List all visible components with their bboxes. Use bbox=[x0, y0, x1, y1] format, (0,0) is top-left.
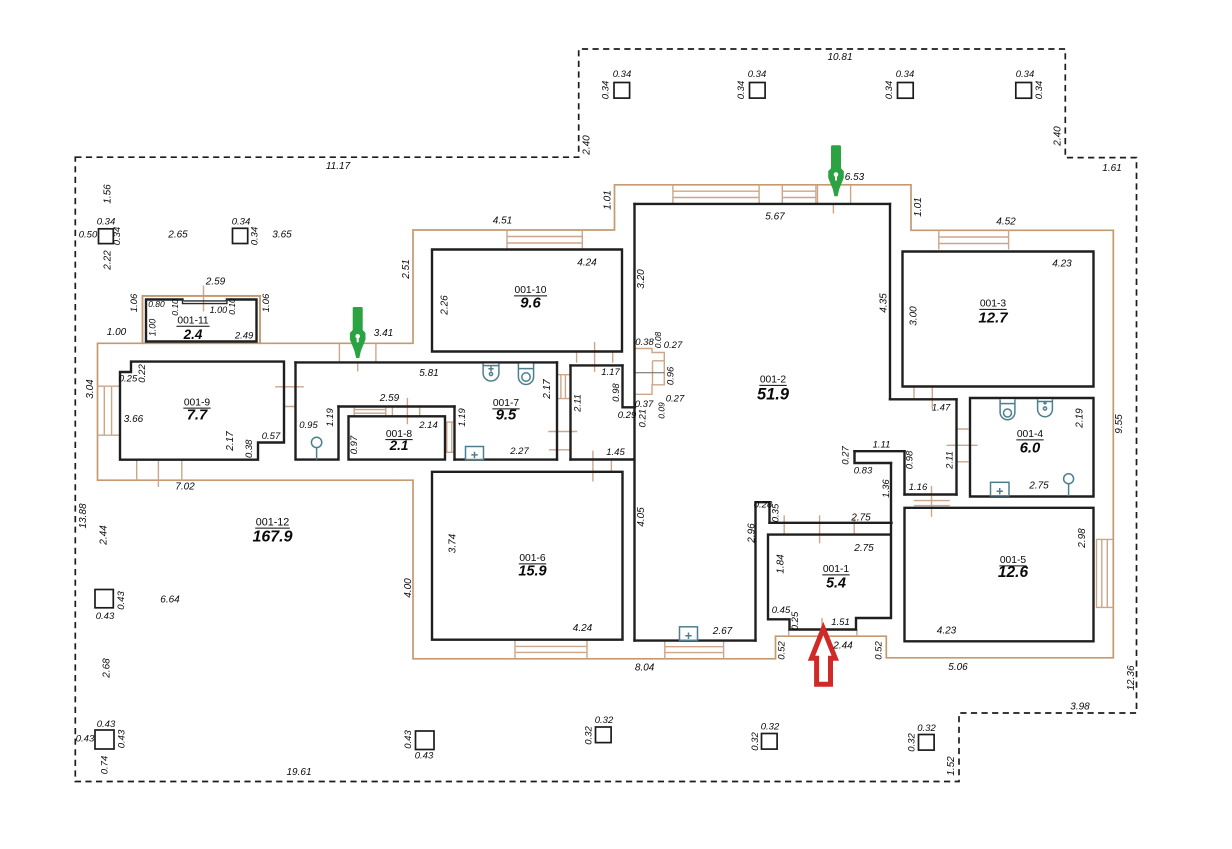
svg-text:15.9: 15.9 bbox=[518, 564, 546, 580]
svg-text:4.23: 4.23 bbox=[1052, 259, 1072, 270]
svg-text:0.29: 0.29 bbox=[618, 410, 637, 421]
svg-text:9.5: 9.5 bbox=[496, 408, 517, 424]
room 001-2 left wall bbox=[633, 204, 635, 641]
room 001-7 bottom wall bbox=[455, 458, 558, 460]
svg-text:5.06: 5.06 bbox=[948, 662, 968, 673]
svg-text:0.57: 0.57 bbox=[262, 431, 281, 442]
svg-text:4.24: 4.24 bbox=[573, 623, 593, 634]
svg-text:2.19: 2.19 bbox=[1075, 408, 1086, 429]
svg-text:1.84: 1.84 bbox=[776, 554, 787, 574]
lobby top wall bbox=[571, 364, 623, 366]
svg-text:19.61: 19.61 bbox=[286, 767, 311, 778]
svg-text:2.49: 2.49 bbox=[234, 331, 254, 342]
marker square sq-l1 bbox=[99, 229, 114, 244]
svg-text:12.36: 12.36 bbox=[1126, 665, 1137, 690]
svg-text:001-1: 001-1 bbox=[823, 564, 850, 575]
svg-text:0.34: 0.34 bbox=[1016, 69, 1035, 80]
svg-text:3.65: 3.65 bbox=[272, 230, 292, 241]
tick dim 1.17 lobby door bbox=[594, 342, 596, 372]
room 001-6 walls bbox=[432, 472, 623, 640]
tick dim 2.59 room 001-11 bbox=[203, 286, 205, 312]
svg-text:0.38: 0.38 bbox=[244, 439, 255, 458]
svg-text:0.45: 0.45 bbox=[772, 605, 791, 616]
svg-text:4.23: 4.23 bbox=[937, 626, 957, 637]
room 001-8 walls bbox=[349, 416, 446, 459]
marker square sq-b1 bbox=[95, 730, 114, 749]
svg-text:0.34: 0.34 bbox=[232, 217, 251, 228]
svg-text:2.44: 2.44 bbox=[99, 525, 110, 546]
svg-text:1.19: 1.19 bbox=[457, 408, 468, 427]
room 001-4 walls bbox=[970, 398, 1094, 497]
svg-text:4.05: 4.05 bbox=[636, 507, 647, 527]
door between rooms 001-9 and boiler room bbox=[275, 387, 304, 407]
room 001-3 walls bbox=[903, 252, 1094, 387]
window W1 left wall of room 001-9 bbox=[98, 386, 120, 435]
svg-text:0.32: 0.32 bbox=[750, 732, 761, 751]
svg-text:2.75: 2.75 bbox=[1028, 481, 1049, 492]
tick dim 2.59 wall bbox=[406, 398, 408, 425]
window W7 below room 001-2 bbox=[665, 641, 724, 659]
marker square sq-b4 bbox=[762, 734, 778, 750]
svg-text:1.00: 1.00 bbox=[148, 319, 158, 337]
svg-text:3.74: 3.74 bbox=[448, 533, 459, 553]
marker square sq-b5 bbox=[919, 735, 935, 751]
svg-text:0.95: 0.95 bbox=[299, 420, 318, 431]
svg-text:6.0: 6.0 bbox=[1020, 441, 1041, 457]
svg-text:7.7: 7.7 bbox=[187, 408, 208, 424]
svg-text:2.1: 2.1 bbox=[389, 438, 409, 453]
svg-text:2.14: 2.14 bbox=[418, 420, 438, 431]
wall 1.36 bbox=[890, 463, 892, 523]
svg-text:12.7: 12.7 bbox=[978, 310, 1008, 327]
svg-text:2.26: 2.26 bbox=[440, 295, 451, 316]
room 001-2 bottom wall bbox=[635, 639, 756, 641]
room 001-11 orange outer box bbox=[143, 296, 261, 344]
marker square sq-t4 bbox=[1016, 83, 1032, 99]
svg-text:0.83: 0.83 bbox=[854, 466, 873, 477]
svg-text:1.06: 1.06 bbox=[129, 293, 140, 312]
svg-text:0.52: 0.52 bbox=[777, 641, 788, 660]
svg-text:1.00: 1.00 bbox=[210, 305, 228, 315]
sink in room 001-2 bottom wall bbox=[680, 627, 698, 641]
svg-text:11.17: 11.17 bbox=[326, 161, 351, 172]
svg-text:2.67: 2.67 bbox=[712, 626, 733, 637]
svg-text:2.11: 2.11 bbox=[945, 451, 956, 470]
svg-text:3.66: 3.66 bbox=[124, 414, 144, 425]
svg-text:0.34: 0.34 bbox=[736, 81, 747, 100]
svg-text:0.34: 0.34 bbox=[1034, 81, 1045, 100]
tick door 1.45 wall bbox=[610, 460, 612, 472]
svg-text:001-10: 001-10 bbox=[514, 285, 546, 296]
svg-text:001-2: 001-2 bbox=[760, 375, 787, 386]
wall 2.59 above room 001-8 bbox=[339, 405, 455, 407]
svg-text:9.55: 9.55 bbox=[1114, 414, 1125, 434]
svg-text:0.34: 0.34 bbox=[250, 227, 261, 246]
svg-text:3.04: 3.04 bbox=[85, 379, 96, 399]
door hatch between rooms 001-8 and 001-7 bbox=[445, 422, 455, 452]
chimney niche outline on left wall of room 001-2 bbox=[635, 349, 664, 395]
corridor left wall bbox=[569, 365, 571, 459]
room 001-9 walls bbox=[120, 362, 284, 460]
marker square sq-l2 bbox=[233, 228, 248, 243]
svg-text:3.20: 3.20 bbox=[636, 269, 647, 289]
wall 0.27-0.83 bbox=[855, 451, 892, 463]
svg-text:0.27: 0.27 bbox=[666, 393, 685, 404]
svg-text:1.01: 1.01 bbox=[913, 197, 924, 216]
svg-text:0.22: 0.22 bbox=[137, 364, 148, 383]
entrance jamb right of green arrow 2 bbox=[850, 185, 852, 203]
room 001-7 right wall bbox=[556, 362, 558, 459]
svg-text:4.52: 4.52 bbox=[996, 217, 1016, 228]
svg-text:8.04: 8.04 bbox=[635, 663, 655, 674]
tick between rooms 001-3 and 001-4 a bbox=[913, 387, 915, 400]
svg-text:0.34: 0.34 bbox=[896, 69, 915, 80]
door into room 001-4 bbox=[947, 429, 978, 462]
svg-text:51.9: 51.9 bbox=[757, 386, 790, 404]
marker square sq-t2 bbox=[750, 83, 766, 99]
svg-text:001-4: 001-4 bbox=[1017, 429, 1044, 440]
porch jamb left bbox=[788, 630, 790, 637]
svg-text:0.32: 0.32 bbox=[761, 722, 780, 733]
svg-text:4.51: 4.51 bbox=[493, 216, 512, 227]
svg-text:10.81: 10.81 bbox=[827, 52, 852, 63]
bidet in room 001-7 bbox=[483, 364, 499, 381]
svg-text:1.56: 1.56 bbox=[103, 184, 114, 204]
svg-text:0.08: 0.08 bbox=[653, 331, 663, 348]
svg-text:0.35: 0.35 bbox=[771, 503, 782, 522]
svg-text:2.59: 2.59 bbox=[379, 393, 400, 404]
svg-text:001-11: 001-11 bbox=[177, 315, 209, 326]
svg-text:0.43: 0.43 bbox=[117, 729, 128, 748]
svg-text:0.32: 0.32 bbox=[584, 726, 595, 745]
svg-text:2.17: 2.17 bbox=[225, 431, 236, 452]
wall 5.81 top of rooms 001-7/001-8 bbox=[296, 361, 558, 363]
window W3a top wall room 001-2 left bbox=[673, 185, 759, 204]
wall 1.45 bbox=[571, 458, 635, 460]
svg-text:1.01: 1.01 bbox=[603, 190, 614, 209]
svg-text:2.27: 2.27 bbox=[509, 446, 529, 457]
marker square sq-t3 bbox=[898, 83, 914, 99]
green entrance arrow 2 (top wall) bbox=[828, 145, 844, 196]
svg-text:2.59: 2.59 bbox=[205, 277, 226, 288]
svg-text:0.43: 0.43 bbox=[403, 730, 414, 749]
svg-text:0.38: 0.38 bbox=[635, 337, 654, 348]
tick below green arrow 2 bbox=[832, 203, 834, 214]
svg-text:2.44: 2.44 bbox=[832, 640, 853, 651]
svg-text:4.24: 4.24 bbox=[577, 258, 597, 269]
svg-text:6.53: 6.53 bbox=[845, 172, 865, 183]
svg-text:0.43: 0.43 bbox=[97, 719, 116, 730]
room 001-2 top wall bbox=[635, 203, 891, 205]
svg-text:5.67: 5.67 bbox=[765, 212, 785, 223]
door in right wall of room 001-7 bbox=[557, 375, 571, 399]
svg-text:1.17: 1.17 bbox=[601, 367, 620, 378]
svg-text:0.74: 0.74 bbox=[100, 756, 111, 775]
svg-text:0.32: 0.32 bbox=[917, 723, 936, 734]
window W4 "4.52" above room 001-3 bbox=[939, 230, 1009, 249]
water heater circle in boiler room bbox=[311, 437, 321, 447]
svg-text:0.96: 0.96 bbox=[666, 366, 677, 385]
room 001-5 walls bbox=[905, 508, 1094, 642]
svg-text:4.00: 4.00 bbox=[403, 578, 414, 598]
room 001-11 top wall niche bbox=[184, 300, 227, 302]
building exterior wall outline bbox=[98, 185, 1114, 659]
chimney niche divider line bbox=[635, 372, 664, 374]
entrance jamb left of green arrow 2 bbox=[817, 185, 819, 203]
window W2 "4.51" top-left wing bbox=[507, 230, 582, 249]
ticks wall 2.75 room 001-1 b bbox=[853, 518, 855, 535]
svg-text:1.19: 1.19 bbox=[325, 408, 336, 427]
svg-text:0.32: 0.32 bbox=[595, 715, 614, 726]
svg-text:0.34: 0.34 bbox=[97, 217, 116, 228]
red main entrance arrow bbox=[812, 629, 836, 685]
svg-text:0.34: 0.34 bbox=[112, 227, 123, 246]
wall 1.16 bbox=[905, 493, 957, 495]
marker square sq-b3 bbox=[596, 727, 612, 743]
tick below green arrow 1 bbox=[357, 362, 359, 371]
svg-text:2.75: 2.75 bbox=[850, 513, 871, 524]
tick dim 1.47 bbox=[931, 387, 933, 410]
ticks wall 2.75 room 001-1 a bbox=[783, 515, 785, 535]
tick wall 2.59 a bbox=[391, 407, 393, 416]
svg-text:5.81: 5.81 bbox=[419, 368, 438, 379]
tick wall 2.59 b bbox=[419, 407, 421, 416]
window W5 right wall of room 001-5 bbox=[1096, 539, 1113, 607]
entrance jamb right of green arrow 1 bbox=[375, 343, 377, 362]
svg-text:1.11: 1.11 bbox=[873, 440, 891, 451]
window W3b top wall room 001-2 right bbox=[782, 185, 816, 204]
wall 0.98 bbox=[903, 451, 905, 494]
tick below room 001-9 b bbox=[181, 460, 183, 481]
svg-text:1.06: 1.06 bbox=[261, 293, 272, 312]
wall 1.47 bbox=[890, 398, 957, 400]
svg-text:2.68: 2.68 bbox=[102, 658, 113, 679]
svg-text:0.34: 0.34 bbox=[748, 69, 767, 80]
room 001-7 left wall bbox=[453, 407, 455, 460]
svg-text:0.34: 0.34 bbox=[884, 81, 895, 100]
room 001-10 walls bbox=[432, 250, 622, 352]
marker square sq-b2 bbox=[416, 731, 435, 750]
room 001-11 walls bbox=[146, 300, 257, 342]
svg-text:0.80: 0.80 bbox=[148, 299, 165, 309]
bidet in room 001-4 bbox=[1038, 399, 1053, 417]
svg-text:9.6: 9.6 bbox=[520, 296, 541, 312]
svg-text:2.51: 2.51 bbox=[401, 259, 412, 279]
svg-text:4.35: 4.35 bbox=[879, 293, 890, 313]
lobby door jamb right below room 001-10 bbox=[612, 352, 614, 363]
room 001-1 walls bbox=[768, 523, 891, 630]
wall 2.75 top of room 001-1 bbox=[770, 522, 892, 524]
svg-text:1.00: 1.00 bbox=[107, 327, 127, 338]
svg-text:2.96: 2.96 bbox=[747, 523, 758, 544]
sink in room 001-7 bottom wall bbox=[466, 447, 484, 460]
svg-text:1.51: 1.51 bbox=[831, 617, 850, 628]
wall 1.11 bbox=[855, 450, 905, 452]
svg-text:2.40: 2.40 bbox=[1053, 126, 1064, 147]
tick dim 1.45 wall bbox=[592, 451, 594, 482]
svg-text:0.34: 0.34 bbox=[613, 69, 632, 80]
svg-text:0.25: 0.25 bbox=[119, 374, 138, 385]
green entrance arrow 1 (west wing) bbox=[350, 307, 366, 358]
sink in room 001-4 bottom wall bbox=[991, 482, 1010, 496]
porch jamb right bbox=[856, 630, 858, 637]
svg-text:2.17: 2.17 bbox=[542, 379, 553, 400]
tick door room 001-7 lower bbox=[548, 431, 577, 433]
svg-text:0.98: 0.98 bbox=[905, 450, 916, 469]
svg-text:0.10: 0.10 bbox=[227, 298, 237, 315]
svg-text:13.88: 13.88 bbox=[78, 503, 89, 528]
tick door room 001-7 lower b bbox=[549, 449, 570, 451]
svg-text:0.32: 0.32 bbox=[907, 733, 918, 752]
svg-text:2.40: 2.40 bbox=[582, 135, 593, 156]
tick door 1.51 room 001-1 bbox=[821, 618, 823, 627]
room 001-2 right wall bbox=[889, 204, 891, 399]
entrance jamb left of green arrow 1 bbox=[338, 343, 340, 362]
toilet in room 001-7 bbox=[518, 364, 533, 385]
plot boundary dashed polygon bbox=[75, 49, 1136, 782]
svg-text:001-6: 001-6 bbox=[519, 553, 546, 564]
svg-text:3.41: 3.41 bbox=[374, 328, 393, 339]
tick dim 7.02 below room 001-9 bbox=[157, 460, 159, 487]
svg-text:0.52: 0.52 bbox=[873, 641, 884, 660]
svg-text:2.4: 2.4 bbox=[183, 327, 203, 342]
svg-text:0.98: 0.98 bbox=[611, 383, 622, 402]
marker square sq-t1 bbox=[614, 83, 630, 99]
tick dim 2.75 room 001-1 bbox=[819, 515, 821, 543]
svg-text:6.64: 6.64 bbox=[160, 595, 180, 606]
svg-text:0.27: 0.27 bbox=[841, 446, 852, 465]
svg-text:0.34: 0.34 bbox=[601, 81, 612, 100]
svg-text:0.25: 0.25 bbox=[790, 611, 801, 630]
svg-text:167.9: 167.9 bbox=[252, 529, 292, 546]
svg-text:12.6: 12.6 bbox=[998, 564, 1029, 581]
tick below room 001-9 a bbox=[136, 460, 138, 481]
corridor right wall bbox=[955, 399, 957, 494]
marker square sq-m1 bbox=[95, 590, 113, 608]
svg-text:2.11: 2.11 bbox=[573, 394, 584, 413]
lobby door jamb left below room 001-10 bbox=[576, 352, 578, 363]
boiler room walls bbox=[296, 362, 339, 459]
svg-text:001-3: 001-3 bbox=[980, 299, 1007, 310]
svg-text:1.52: 1.52 bbox=[946, 756, 957, 776]
svg-text:3.00: 3.00 bbox=[909, 306, 920, 326]
window hatch above room 001-8 bbox=[354, 407, 386, 417]
toilet in room 001-4 bbox=[1000, 399, 1015, 420]
svg-text:0.27: 0.27 bbox=[664, 340, 683, 351]
svg-text:0.10: 0.10 bbox=[170, 299, 180, 316]
svg-text:2.22: 2.22 bbox=[103, 250, 114, 271]
door corridor to room 001-5 bbox=[914, 486, 950, 517]
svg-text:0.43: 0.43 bbox=[76, 734, 95, 745]
svg-text:0.09: 0.09 bbox=[657, 402, 667, 419]
svg-text:0.50: 0.50 bbox=[79, 230, 98, 241]
svg-text:3.98: 3.98 bbox=[1070, 702, 1090, 713]
chimney niche inner box bbox=[653, 361, 665, 385]
svg-text:1.16: 1.16 bbox=[909, 482, 928, 493]
svg-text:0.43: 0.43 bbox=[116, 591, 127, 610]
svg-text:0.43: 0.43 bbox=[415, 751, 434, 762]
svg-text:2.65: 2.65 bbox=[167, 230, 188, 241]
window W6 below room 001-6 bbox=[515, 640, 587, 659]
svg-text:5.4: 5.4 bbox=[826, 576, 846, 592]
svg-text:2.98: 2.98 bbox=[1077, 528, 1088, 549]
svg-text:1.61: 1.61 bbox=[1102, 163, 1121, 174]
lobby right wall bbox=[623, 365, 636, 407]
svg-text:0.43: 0.43 bbox=[96, 611, 115, 622]
svg-text:7.02: 7.02 bbox=[175, 482, 195, 493]
svg-text:1.45: 1.45 bbox=[606, 447, 625, 458]
svg-text:2.75: 2.75 bbox=[853, 543, 874, 554]
wall 2.96 bbox=[756, 502, 770, 640]
svg-text:1.36: 1.36 bbox=[881, 479, 892, 498]
water heater circle in room 001-4 bbox=[1064, 474, 1074, 484]
svg-text:0.37: 0.37 bbox=[635, 399, 654, 410]
svg-text:0.97: 0.97 bbox=[349, 435, 360, 454]
svg-text:001-12: 001-12 bbox=[256, 517, 290, 529]
svg-text:1.47: 1.47 bbox=[932, 403, 951, 414]
svg-text:0.21: 0.21 bbox=[638, 409, 649, 428]
